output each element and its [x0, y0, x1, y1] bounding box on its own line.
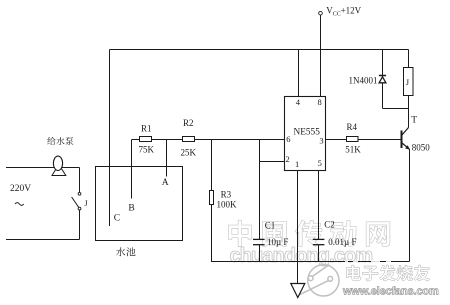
svg-text:100K: 100K [217, 199, 238, 209]
resistor R3 [210, 191, 214, 205]
water tank box [96, 167, 183, 241]
wire pin2-C1 vertical upper [259, 140, 261, 240]
capacitor C2 [313, 238, 325, 240]
wire pump top [6, 167, 80, 169]
transistor Q1 8050 [401, 131, 403, 149]
watermark 电子发烧友 [347, 266, 430, 282]
svg-text:J: J [84, 198, 88, 208]
relay coil J [404, 68, 414, 96]
node Vcc terminal [319, 11, 323, 15]
svg-text:2: 2 [286, 154, 290, 164]
svg-text:5: 5 [318, 158, 322, 168]
svg-text:C: C [114, 213, 120, 223]
wire R1-R2 to pin 6 [132, 139, 285, 141]
label tank 水池 [116, 247, 135, 256]
diode D1 1N4001 [379, 75, 386, 77]
wire pin 4 [298, 50, 300, 97]
wire diode top [382, 50, 384, 76]
svg-text:220V: 220V [10, 184, 31, 194]
svg-text:6: 6 [286, 134, 290, 144]
electrode C wire [109, 50, 111, 227]
motor pump symbol [52, 165, 66, 176]
switch J blade [72, 197, 79, 208]
svg-text:+12V: +12V [341, 5, 362, 15]
wire emitter down [409, 150, 411, 262]
wire diode-relay link [383, 108, 409, 110]
wire C2 lower [318, 245, 320, 262]
svg-text:C1: C1 [265, 220, 276, 230]
svg-text:T: T [411, 116, 417, 126]
svg-text:8: 8 [318, 97, 322, 107]
ground [291, 284, 305, 298]
electrode A wire [166, 140, 168, 177]
wire Vcc vertical to pin 8 [320, 15, 322, 97]
svg-text:1N4001: 1N4001 [349, 76, 378, 86]
wire R3 branch [211, 140, 213, 263]
resistor R4 [347, 137, 359, 142]
switch J contact dots [78, 192, 81, 195]
wire pin 2 stub [260, 161, 285, 163]
svg-text:4: 4 [296, 97, 301, 107]
wire pin 3 to base [326, 139, 402, 141]
svg-text:R3: R3 [221, 190, 232, 200]
wire diode bottom [382, 83, 384, 108]
wire pin 5 down [318, 171, 320, 240]
wire 220V bottom [6, 239, 80, 241]
svg-text:www.elecfans.com: www.elecfans.com [342, 286, 439, 298]
svg-text:3: 3 [319, 136, 323, 146]
svg-text:B: B [128, 204, 134, 214]
wire relay to collector [408, 96, 410, 128]
op-amp U1 NE555 body [285, 97, 326, 171]
svg-text:R4: R4 [347, 122, 358, 132]
label pump 给水泵 [47, 137, 73, 145]
source AC tilde [15, 203, 24, 206]
wire switch lower [79, 210, 81, 240]
capacitor C1 [253, 238, 265, 240]
svg-text:CC: CC [333, 12, 341, 18]
wire switch upper [79, 168, 81, 193]
watermark rail highlight breaks [345, 261, 391, 263]
watermark www.elecfans.com [342, 286, 440, 299]
svg-text:0.01µ F: 0.01µ F [328, 237, 356, 247]
svg-text:C2: C2 [324, 219, 335, 229]
svg-text:R1: R1 [141, 124, 152, 134]
watermark 中国传动网 [229, 221, 390, 247]
wire top +12V rail [110, 49, 409, 51]
watermark chuandong.com [230, 245, 374, 268]
svg-text:chuandong.com: chuandong.com [230, 245, 373, 267]
watermark elecfans logo [299, 265, 339, 296]
electrode B wire [131, 140, 133, 199]
wire ground rail [212, 261, 410, 263]
resistor R2 [183, 137, 195, 142]
svg-text:R2: R2 [183, 118, 194, 128]
svg-text:25K: 25K [181, 147, 197, 157]
svg-text:51K: 51K [345, 145, 361, 155]
svg-text:1: 1 [295, 159, 299, 169]
svg-text:A: A [162, 178, 169, 188]
wire pin 1 down [297, 171, 299, 284]
svg-text:NE555: NE555 [294, 127, 321, 137]
svg-text:8050: 8050 [412, 143, 431, 153]
resistor R1 [140, 137, 152, 142]
wire C1 lower [259, 245, 261, 262]
svg-text:75K: 75K [139, 144, 155, 154]
wire relay top [408, 50, 410, 68]
svg-text:10µ F: 10µ F [267, 237, 288, 247]
